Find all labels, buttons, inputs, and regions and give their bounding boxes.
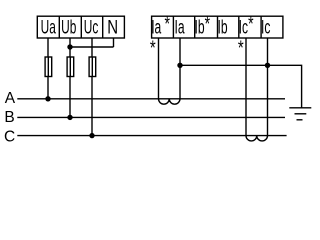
svg-text:Ib: Ib (195, 17, 205, 39)
svg-text:*: * (205, 12, 211, 35)
svg-text:N: N (107, 15, 118, 37)
svg-text:Ic: Ic (239, 17, 248, 39)
svg-text:Ib: Ib (218, 17, 228, 39)
svg-text:Ub: Ub (61, 16, 76, 38)
svg-text:*: * (164, 12, 170, 35)
svg-text:C: C (4, 128, 15, 145)
svg-text:*: * (238, 36, 244, 59)
svg-text:*: * (248, 12, 254, 35)
svg-text:Ia: Ia (151, 17, 162, 39)
svg-text:Ia: Ia (175, 17, 186, 39)
svg-text:Ic: Ic (261, 17, 270, 39)
svg-text:B: B (4, 109, 14, 126)
svg-text:*: * (150, 36, 156, 59)
svg-text:Ua: Ua (41, 16, 56, 38)
svg-text:Uc: Uc (84, 16, 99, 38)
svg-text:A: A (5, 90, 16, 107)
